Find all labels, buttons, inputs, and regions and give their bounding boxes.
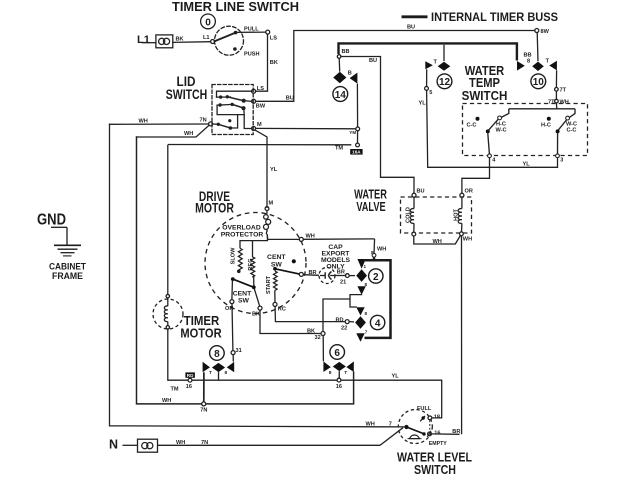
svg-text:BW: BW	[256, 104, 266, 110]
svg-text:PROTECTOR: PROTECTOR	[221, 232, 264, 239]
svg-text:BK: BK	[252, 311, 260, 317]
svg-text:N: N	[109, 438, 118, 452]
svg-text:7N: 7N	[200, 118, 207, 124]
svg-text:BK: BK	[270, 60, 278, 66]
svg-text:18: 18	[434, 415, 440, 421]
svg-text:M: M	[269, 201, 274, 207]
svg-text:C-C: C-C	[567, 128, 577, 134]
svg-text:T: T	[209, 370, 212, 376]
svg-text:T: T	[434, 60, 438, 66]
svg-text:12: 12	[439, 77, 451, 88]
svg-text:32: 32	[315, 335, 321, 341]
svg-text:BU: BU	[417, 189, 425, 195]
svg-text:8: 8	[225, 370, 228, 376]
svg-text:SWITCH: SWITCH	[414, 463, 456, 477]
svg-text:YL: YL	[419, 101, 427, 107]
svg-text:EMPTY: EMPTY	[429, 441, 447, 447]
svg-text:14: 14	[335, 90, 347, 101]
svg-text:SW: SW	[271, 261, 283, 268]
svg-text:WH: WH	[366, 421, 375, 427]
svg-text:BU: BU	[407, 25, 415, 31]
svg-text:WH: WH	[306, 233, 315, 239]
svg-text:16: 16	[186, 384, 192, 390]
svg-text:YL: YL	[523, 162, 531, 168]
svg-text:REG: REG	[248, 258, 254, 270]
svg-text:START: START	[266, 275, 272, 294]
svg-text:BK: BK	[176, 37, 184, 43]
svg-text:TIMER LINE SWITCH: TIMER LINE SWITCH	[172, 0, 299, 14]
svg-text:8: 8	[527, 59, 530, 65]
svg-text:OVERLOAD: OVERLOAD	[222, 225, 261, 232]
svg-text:C-C: C-C	[467, 123, 477, 129]
svg-text:INTERNAL TIMER BUSS: INTERNAL TIMER BUSS	[431, 10, 558, 24]
svg-text:8: 8	[214, 349, 220, 360]
svg-text:1: 1	[364, 264, 367, 269]
svg-text:GND: GND	[37, 212, 66, 229]
svg-text:16: 16	[336, 384, 342, 390]
svg-text:3: 3	[560, 158, 563, 164]
svg-text:OR: OR	[225, 306, 233, 312]
svg-text:PULL: PULL	[244, 27, 259, 33]
svg-text:SW: SW	[238, 298, 250, 305]
svg-text:21: 21	[340, 279, 346, 285]
svg-text:CENT: CENT	[233, 290, 252, 297]
svg-text:0: 0	[205, 17, 211, 28]
svg-text:TEMP: TEMP	[469, 76, 500, 90]
svg-text:SLOW: SLOW	[231, 247, 237, 264]
svg-text:PUSH: PUSH	[244, 52, 260, 58]
svg-text:WH: WH	[139, 119, 148, 125]
svg-text:L1: L1	[137, 34, 150, 46]
svg-text:HOT: HOT	[454, 209, 460, 221]
svg-text:FRAME: FRAME	[52, 271, 83, 282]
svg-text:ONLY: ONLY	[326, 263, 345, 270]
svg-text:CENT: CENT	[267, 254, 286, 261]
svg-text:10: 10	[533, 77, 545, 88]
svg-text:8: 8	[365, 311, 368, 316]
svg-text:7T: 7T	[560, 88, 567, 94]
svg-text:TM: TM	[335, 146, 343, 152]
svg-text:BR: BR	[309, 270, 317, 276]
svg-text:M: M	[257, 122, 262, 128]
svg-text:B: B	[348, 71, 352, 77]
svg-text:BR: BR	[337, 270, 345, 276]
svg-text:MOTOR: MOTOR	[195, 201, 234, 216]
svg-text:16: 16	[434, 431, 440, 437]
svg-text:31: 31	[236, 348, 242, 354]
svg-text:8: 8	[371, 250, 374, 255]
svg-text:6: 6	[334, 348, 340, 359]
svg-text:OR: OR	[465, 189, 473, 195]
svg-text:WH: WH	[463, 237, 472, 243]
svg-text:MOTOR: MOTOR	[180, 326, 222, 341]
svg-text:YL: YL	[270, 167, 278, 173]
svg-text:WH: WH	[162, 398, 171, 404]
svg-text:YM: YM	[349, 130, 356, 135]
svg-text:RD: RD	[187, 373, 194, 378]
svg-text:22: 22	[341, 326, 347, 332]
svg-text:RD: RD	[336, 317, 344, 323]
svg-text:WH: WH	[433, 239, 442, 245]
svg-text:YL: YL	[392, 374, 400, 380]
svg-text:COLD: COLD	[406, 207, 412, 223]
svg-text:BU: BU	[286, 96, 294, 102]
svg-text:2: 2	[373, 272, 379, 283]
svg-text:TM: TM	[171, 387, 179, 393]
svg-text:WH: WH	[176, 440, 185, 446]
svg-text:BK: BK	[307, 328, 315, 334]
svg-text:WH: WH	[560, 99, 569, 105]
svg-text:RC: RC	[278, 307, 286, 313]
svg-text:LS: LS	[270, 36, 277, 42]
svg-text:8: 8	[329, 370, 332, 376]
svg-text:4: 4	[375, 318, 381, 329]
svg-text:7N: 7N	[201, 440, 208, 446]
svg-text:VALVE: VALVE	[356, 200, 385, 214]
svg-text:L1: L1	[203, 35, 210, 41]
svg-text:7: 7	[365, 329, 368, 334]
svg-text:H-C: H-C	[541, 123, 551, 129]
svg-text:SWITCH: SWITCH	[462, 89, 508, 103]
svg-text:T: T	[546, 59, 550, 65]
svg-text:W-C: W-C	[495, 128, 506, 134]
svg-text:SWITCH: SWITCH	[166, 87, 208, 102]
svg-text:7N: 7N	[200, 408, 207, 414]
svg-text:T: T	[344, 370, 347, 376]
svg-text:5: 5	[429, 90, 432, 96]
svg-text:8W: 8W	[541, 29, 550, 35]
svg-text:BR: BR	[452, 429, 460, 435]
svg-text:7: 7	[389, 421, 392, 427]
svg-text:16A: 16A	[352, 150, 361, 155]
svg-text:8: 8	[365, 282, 368, 287]
svg-text:WH: WH	[184, 131, 193, 137]
svg-text:FULL: FULL	[417, 406, 432, 412]
svg-text:7T: 7T	[548, 99, 555, 105]
svg-text:WH: WH	[377, 247, 386, 253]
svg-text:LS: LS	[257, 86, 264, 92]
svg-text:BU: BU	[369, 58, 377, 64]
svg-text:BB: BB	[342, 49, 350, 55]
